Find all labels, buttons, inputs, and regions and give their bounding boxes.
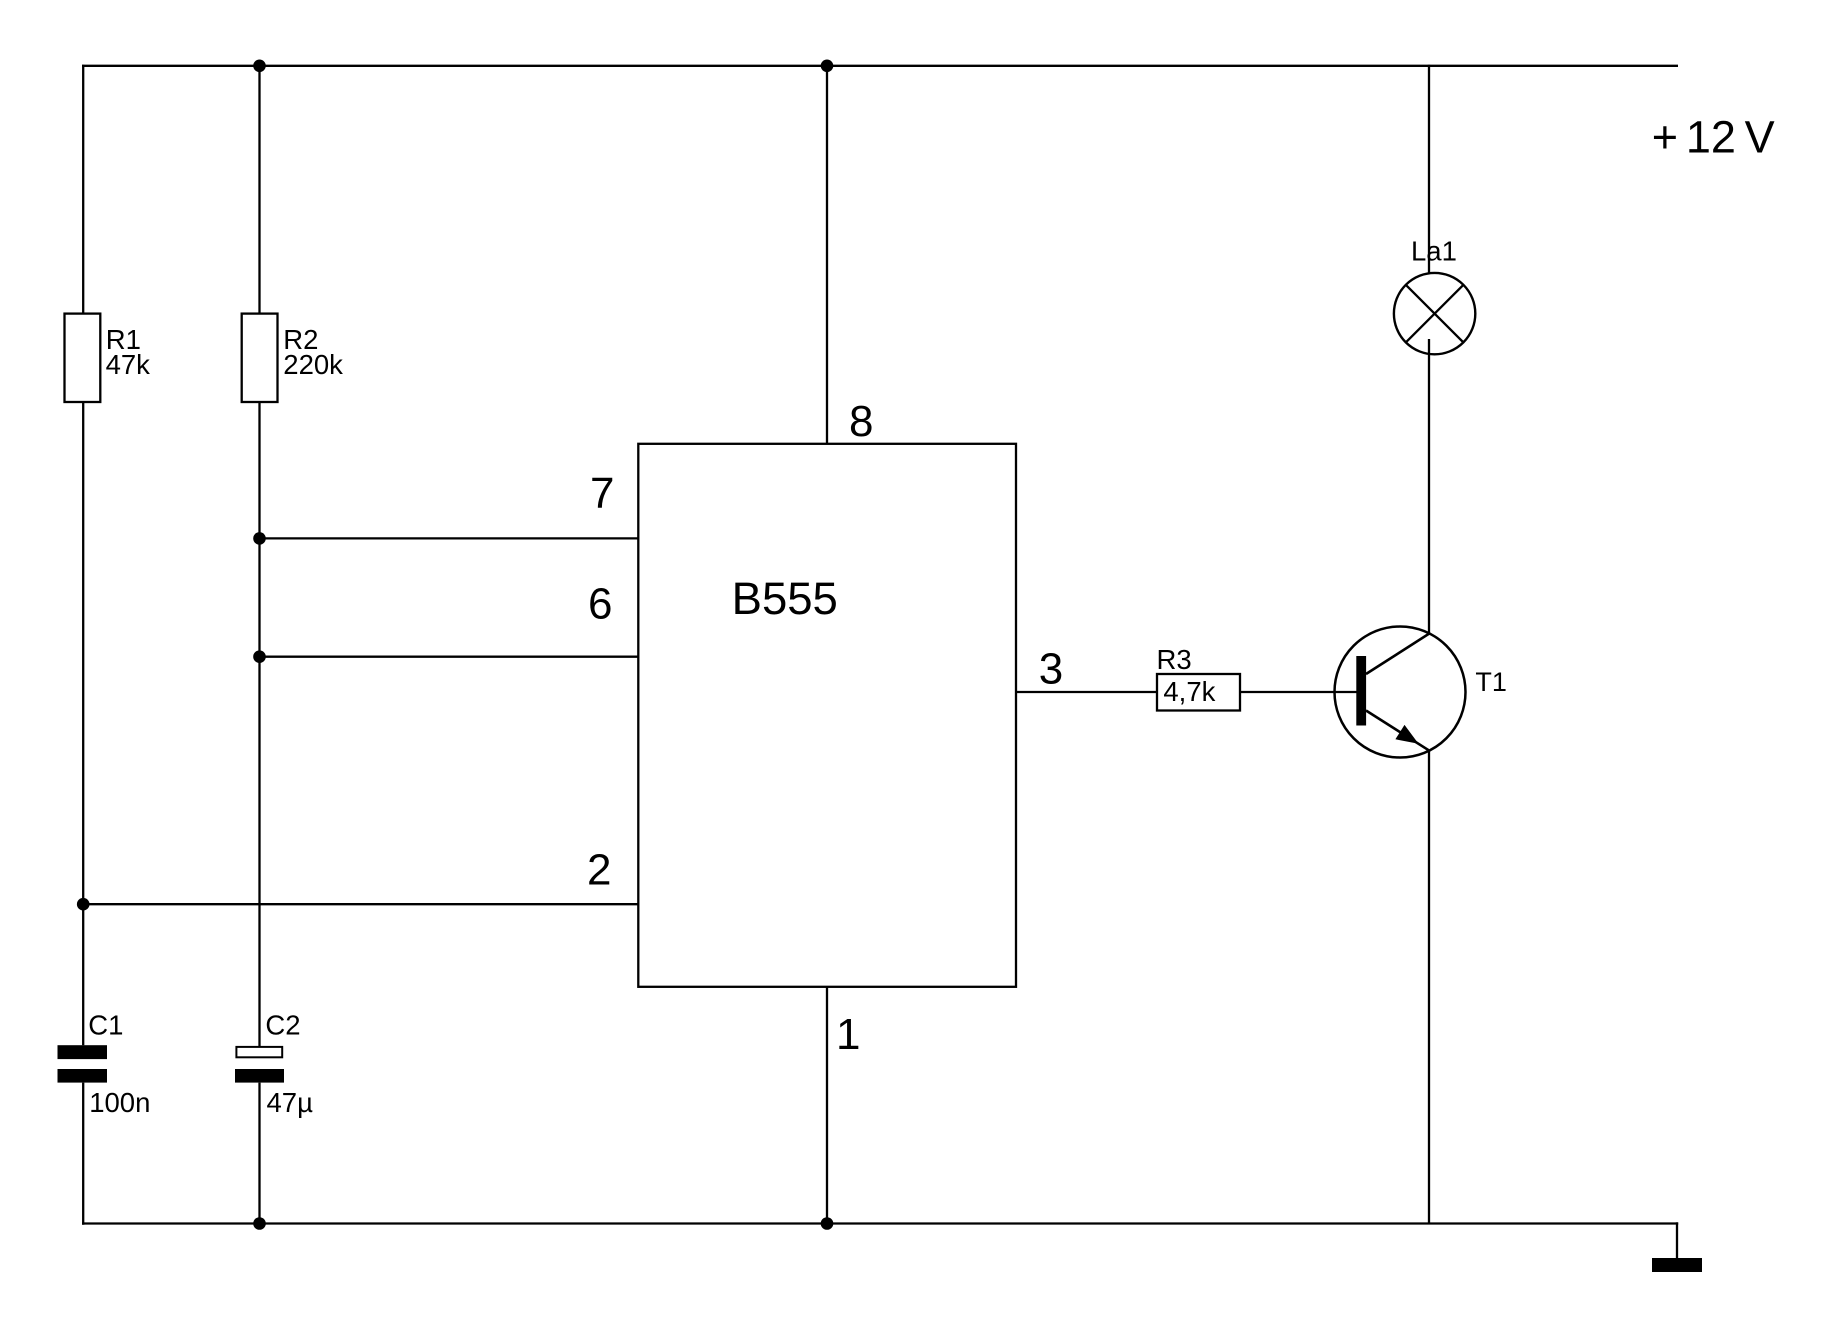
wire R2 branch middle [258, 402, 260, 1046]
node junction top pin8 [821, 60, 834, 73]
svg-text:8: 8 [849, 397, 873, 446]
wire ground stub [1676, 1222, 1678, 1258]
node junction top R2 [253, 60, 266, 73]
svg-text:100n: 100n [89, 1087, 150, 1118]
IC U1 B555 timer box [638, 444, 1016, 987]
wire pin 7 [260, 537, 639, 539]
resistor R2 [242, 314, 278, 402]
ground [1652, 1258, 1702, 1272]
svg-text:3: 3 [1039, 644, 1063, 693]
wire pin 8 [826, 66, 828, 444]
label +12V [1652, 112, 1775, 163]
wire left rail middle segment [82, 402, 84, 1045]
svg-text:1: 1 [836, 1010, 860, 1059]
svg-text:+: + [1652, 112, 1678, 163]
svg-text:7: 7 [590, 469, 614, 518]
wire bottom rail [82, 1222, 1678, 1224]
svg-text:12: 12 [1686, 112, 1736, 163]
wire lamp to collector [1428, 339, 1430, 634]
transistor T1 [1335, 627, 1466, 758]
node junction bottom pin1 [821, 1217, 834, 1230]
svg-text:C2: C2 [265, 1010, 300, 1041]
svg-text:47k: 47k [106, 349, 151, 380]
svg-text:V: V [1745, 112, 1775, 163]
svg-text:T1: T1 [1475, 667, 1507, 697]
resistor R3 [1157, 674, 1240, 711]
capacitor C2 polarized [235, 1047, 284, 1083]
svg-text:220k: 220k [283, 349, 343, 380]
resistor R1 [65, 314, 101, 402]
wire pin 1 [826, 987, 828, 1224]
svg-text:2: 2 [587, 845, 611, 894]
node junction pin6 rail [253, 650, 266, 663]
node junction pin7 rail [253, 532, 266, 545]
node junction bottom C2 [253, 1217, 266, 1230]
lamp La1 [1394, 273, 1475, 354]
capacitor C1 [58, 1045, 108, 1082]
node junction pin2 rail [77, 898, 90, 911]
wire left rail lower segment [82, 1083, 84, 1225]
label C1 100n [88, 1010, 150, 1118]
svg-text:C1: C1 [88, 1010, 123, 1041]
svg-text:4,7k: 4,7k [1163, 676, 1215, 707]
wire pin 3 [1016, 691, 1157, 693]
wire R2 branch lower [258, 1083, 260, 1224]
label C2 47u [265, 1010, 313, 1118]
wire top +12V rail [82, 65, 1678, 67]
wire pin 6 [260, 656, 639, 658]
wire emitter down [1428, 750, 1430, 1223]
svg-text:47µ: 47µ [267, 1087, 314, 1118]
svg-text:La1: La1 [1411, 236, 1457, 267]
svg-text:R3: R3 [1157, 644, 1192, 675]
wire left rail upper segment [82, 65, 84, 314]
wire lamp top [1428, 65, 1430, 273]
wire pin 2 [83, 903, 638, 905]
label R1 47k [106, 324, 151, 380]
label R2 220k [283, 324, 343, 380]
wire R3 to base [1240, 691, 1357, 693]
svg-text:B555: B555 [732, 573, 838, 624]
wire R2 branch upper [258, 66, 260, 314]
svg-text:6: 6 [588, 580, 612, 629]
